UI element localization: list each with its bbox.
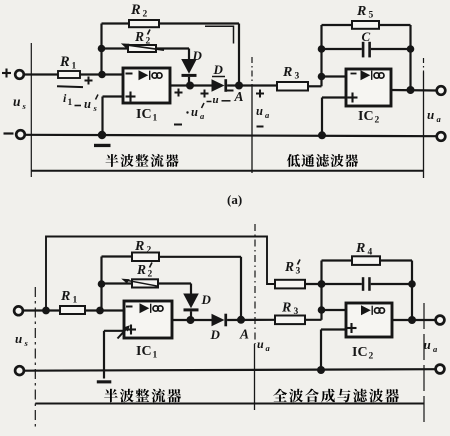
diode D vertical (b) bbox=[183, 294, 199, 309]
boundary line left (a) bbox=[30, 43, 32, 177]
resistor R3 (a) bbox=[277, 82, 308, 91]
svg-text:a: a bbox=[266, 343, 271, 353]
rheostat R2p (a) bbox=[128, 45, 156, 52]
op-amp IC1 box (a) bbox=[123, 68, 170, 103]
wire input to R1 (b) bbox=[23, 309, 60, 311]
svg-text:2: 2 bbox=[143, 10, 148, 20]
stray double-drawn corner artifact near R2 wire (a) bbox=[205, 26, 234, 43]
svg-text:a: a bbox=[265, 110, 270, 120]
node under vertical diode (a) bbox=[186, 82, 194, 90]
terminal output bottom (a) bbox=[437, 132, 446, 141]
terminal + input (a) bbox=[2, 72, 11, 74]
node R2p junction (a) bbox=[98, 45, 106, 53]
svg-text:s: s bbox=[24, 338, 29, 348]
IC2 output wire (a) bbox=[391, 89, 437, 92]
capacitor C (a) bbox=[322, 48, 362, 50]
svg-text:C: C bbox=[362, 29, 371, 44]
svg-text:u: u bbox=[424, 337, 431, 352]
capacitor C (b) bbox=[322, 283, 362, 285]
ground (a) bbox=[98, 131, 106, 139]
svg-text:1: 1 bbox=[72, 62, 77, 72]
node A (a) bbox=[235, 82, 243, 90]
IC1 minus sign bbox=[126, 73, 133, 75]
svg-text:u: u bbox=[191, 105, 198, 119]
svg-text:D: D bbox=[213, 62, 224, 77]
wire left of R2p (a) bbox=[102, 47, 129, 49]
IC2b plus sign bbox=[347, 327, 357, 329]
node on bottom rail (a) bbox=[318, 131, 326, 139]
svg-text:2: 2 bbox=[148, 270, 153, 280]
wire R3 to vertical node line (b) bbox=[305, 319, 322, 321]
svg-text:R: R bbox=[134, 29, 144, 44]
wire input to R1 (a) bbox=[24, 73, 59, 75]
boundary line middle (a), dash-dot bbox=[251, 57, 253, 86]
node C right junction (a) bbox=[407, 45, 415, 53]
IC1b output wire (b) bbox=[172, 319, 212, 321]
label half-wave rectifier (b) bbox=[104, 389, 181, 403]
svg-text:R: R bbox=[136, 262, 146, 277]
IC2 minus tick bbox=[351, 73, 357, 75]
IC1b plus sign with offset arrow bbox=[126, 328, 136, 330]
bottom rail (a) bbox=[25, 135, 437, 136]
svg-text:u: u bbox=[427, 107, 434, 122]
IC1b noninverting wire to ground (b) bbox=[104, 330, 124, 332]
IC1 noninverting input wire to ground (a) bbox=[103, 95, 124, 97]
op-amp IC2 box (b) bbox=[346, 303, 392, 337]
svg-text:IC: IC bbox=[352, 345, 368, 360]
IC2 noninverting to ground wire (a) bbox=[322, 96, 346, 98]
rheostat R2p (b) bbox=[102, 282, 133, 284]
svg-text:D: D bbox=[210, 327, 221, 342]
svg-text:u: u bbox=[15, 331, 22, 346]
node R2p junction (b) bbox=[98, 280, 106, 288]
terminal - input (a) bbox=[4, 132, 14, 134]
svg-text:u: u bbox=[213, 94, 219, 106]
svg-text:2: 2 bbox=[369, 352, 374, 362]
wire R1 to inverting node (b) bbox=[85, 309, 124, 311]
svg-text:i: i bbox=[63, 91, 67, 105]
bracket line (a) bbox=[31, 170, 423, 172]
wire R2 right to node A (a) bbox=[159, 22, 239, 24]
svg-text:A: A bbox=[239, 327, 249, 342]
node IC2b inverting bbox=[318, 306, 326, 314]
svg-text:2: 2 bbox=[375, 116, 380, 126]
wire left of R2 (a) bbox=[102, 22, 130, 24]
bottom rail (b) bbox=[24, 369, 436, 371]
op-amp IC2 box (a) bbox=[346, 69, 391, 106]
boundary line middle (b), dash-dot bbox=[254, 224, 256, 344]
svg-text:R: R bbox=[130, 2, 141, 18]
node output junction (a) bbox=[407, 86, 415, 94]
IC1 plus sign bbox=[126, 95, 136, 97]
wire R1 to inverting node (a) bbox=[80, 73, 123, 75]
svg-text:u: u bbox=[257, 337, 264, 351]
IC1 output wire (a) bbox=[170, 84, 212, 86]
wire R3 to IC2 inverting node (a) bbox=[308, 85, 322, 87]
svg-text:IC: IC bbox=[136, 344, 152, 359]
current label i1 cluster under R1 (a) bbox=[85, 80, 93, 82]
wire R2p to vertical diode (b) bbox=[158, 282, 191, 284]
svg-text:s: s bbox=[22, 101, 27, 111]
terminal - input (b) bbox=[15, 366, 24, 375]
svg-text:5: 5 bbox=[369, 11, 374, 21]
terminal output top (b) bbox=[436, 316, 445, 325]
node under vertical diode (b) bbox=[187, 316, 195, 324]
feedback wire input-node to R3p (b) bbox=[46, 237, 275, 311]
terminal + input (b) bbox=[14, 306, 23, 315]
label ua prime cluster (a) bbox=[175, 92, 183, 94]
diode D horizontal (a) bbox=[212, 79, 225, 92]
node R3p/C junction (b) bbox=[318, 280, 326, 288]
node output junction (b) bbox=[408, 316, 416, 324]
svg-text:a: a bbox=[200, 111, 205, 121]
resistor R3 (b) bbox=[275, 316, 305, 325]
resistor R3p (b) bbox=[275, 280, 305, 289]
svg-text:D: D bbox=[201, 292, 212, 307]
label low-pass filter (a) bbox=[287, 154, 358, 167]
node input junction (b) bbox=[42, 307, 50, 315]
resistor R1 (a) bbox=[58, 71, 80, 78]
IC1 amp triangle + infinity bbox=[139, 70, 149, 80]
label u across diode (a) bbox=[201, 93, 209, 95]
svg-text:u: u bbox=[13, 94, 21, 109]
wire node up to R2/R2p (a) bbox=[100, 24, 102, 75]
IC2b output wire (b) bbox=[392, 319, 436, 321]
boundary line right (b), dash-dot bbox=[423, 303, 425, 426]
label half-wave rectifier (a) bbox=[106, 154, 179, 167]
diode D vertical (a) bbox=[181, 59, 197, 74]
node: inverting input junction (a) bbox=[98, 71, 106, 79]
svg-text:R: R bbox=[59, 54, 70, 70]
wire R2p to diode D vertical (a) bbox=[156, 47, 189, 49]
node C left junction (a) bbox=[318, 45, 326, 53]
resistor R1 (b) bbox=[60, 306, 85, 314]
resistor R4 (b) bbox=[322, 259, 353, 261]
diode D horizontal (b) bbox=[212, 314, 225, 326]
svg-text:R: R bbox=[284, 259, 294, 274]
svg-text:a: a bbox=[437, 114, 442, 124]
svg-text:1: 1 bbox=[68, 98, 73, 108]
svg-text:u: u bbox=[256, 104, 263, 118]
label full-wave synthesis and filter (b) bbox=[273, 389, 399, 403]
svg-text:IC: IC bbox=[358, 109, 374, 124]
node on bottom rail (b) bbox=[317, 366, 325, 374]
IC1b amp triangle + infinity bbox=[140, 303, 150, 313]
terminal output bottom (b) bbox=[436, 365, 445, 374]
bracket line (b) bbox=[35, 403, 424, 405]
label ua at node A (a) bbox=[256, 93, 264, 95]
terminal output top (a) bbox=[437, 86, 446, 95]
IC2b amp triangle + infinity bbox=[361, 305, 371, 315]
resistor R2 (a) bbox=[129, 20, 159, 27]
svg-text:1: 1 bbox=[153, 351, 158, 361]
boundary line left (b), dash-dot bbox=[34, 287, 36, 430]
svg-text:(a): (a) bbox=[227, 192, 242, 207]
svg-text:A: A bbox=[234, 89, 244, 104]
svg-text:s: s bbox=[93, 103, 98, 113]
svg-text:u: u bbox=[84, 97, 91, 111]
svg-text:R: R bbox=[60, 289, 70, 304]
svg-text:IC: IC bbox=[136, 107, 152, 122]
ground (b) bbox=[97, 380, 112, 383]
svg-text:R: R bbox=[281, 301, 291, 316]
node IC2 inverting (a) bbox=[318, 73, 326, 81]
svg-text:R: R bbox=[356, 4, 366, 19]
wire node up to R2p/R2 (b) bbox=[100, 257, 102, 311]
node A (b) bbox=[237, 316, 245, 324]
IC2 plus sign bbox=[348, 96, 358, 98]
op-amp IC1 box (b) bbox=[124, 301, 172, 338]
svg-text:1: 1 bbox=[153, 114, 158, 124]
IC2 amp triangle + infinity bbox=[361, 70, 371, 80]
svg-text:1: 1 bbox=[73, 296, 78, 306]
node inverting junction (b) bbox=[96, 307, 104, 315]
svg-text:3: 3 bbox=[296, 267, 301, 277]
arrow across R2p (a) bbox=[124, 45, 164, 51]
resistor R2 (b) bbox=[102, 255, 133, 257]
IC2b noninverting to bottom rail (b) bbox=[321, 328, 346, 330]
resistor R5 (a) bbox=[322, 24, 353, 26]
node C right junction (b) bbox=[408, 280, 416, 288]
svg-text:a: a bbox=[433, 344, 438, 354]
svg-text:R: R bbox=[282, 65, 292, 80]
svg-text:3: 3 bbox=[295, 72, 300, 82]
wire R2 right down to node A (b) bbox=[240, 257, 242, 320]
IC1b minus sign bbox=[126, 306, 133, 308]
boundary line right (a), dash-dot bbox=[423, 58, 425, 72]
svg-text:R: R bbox=[355, 241, 365, 256]
